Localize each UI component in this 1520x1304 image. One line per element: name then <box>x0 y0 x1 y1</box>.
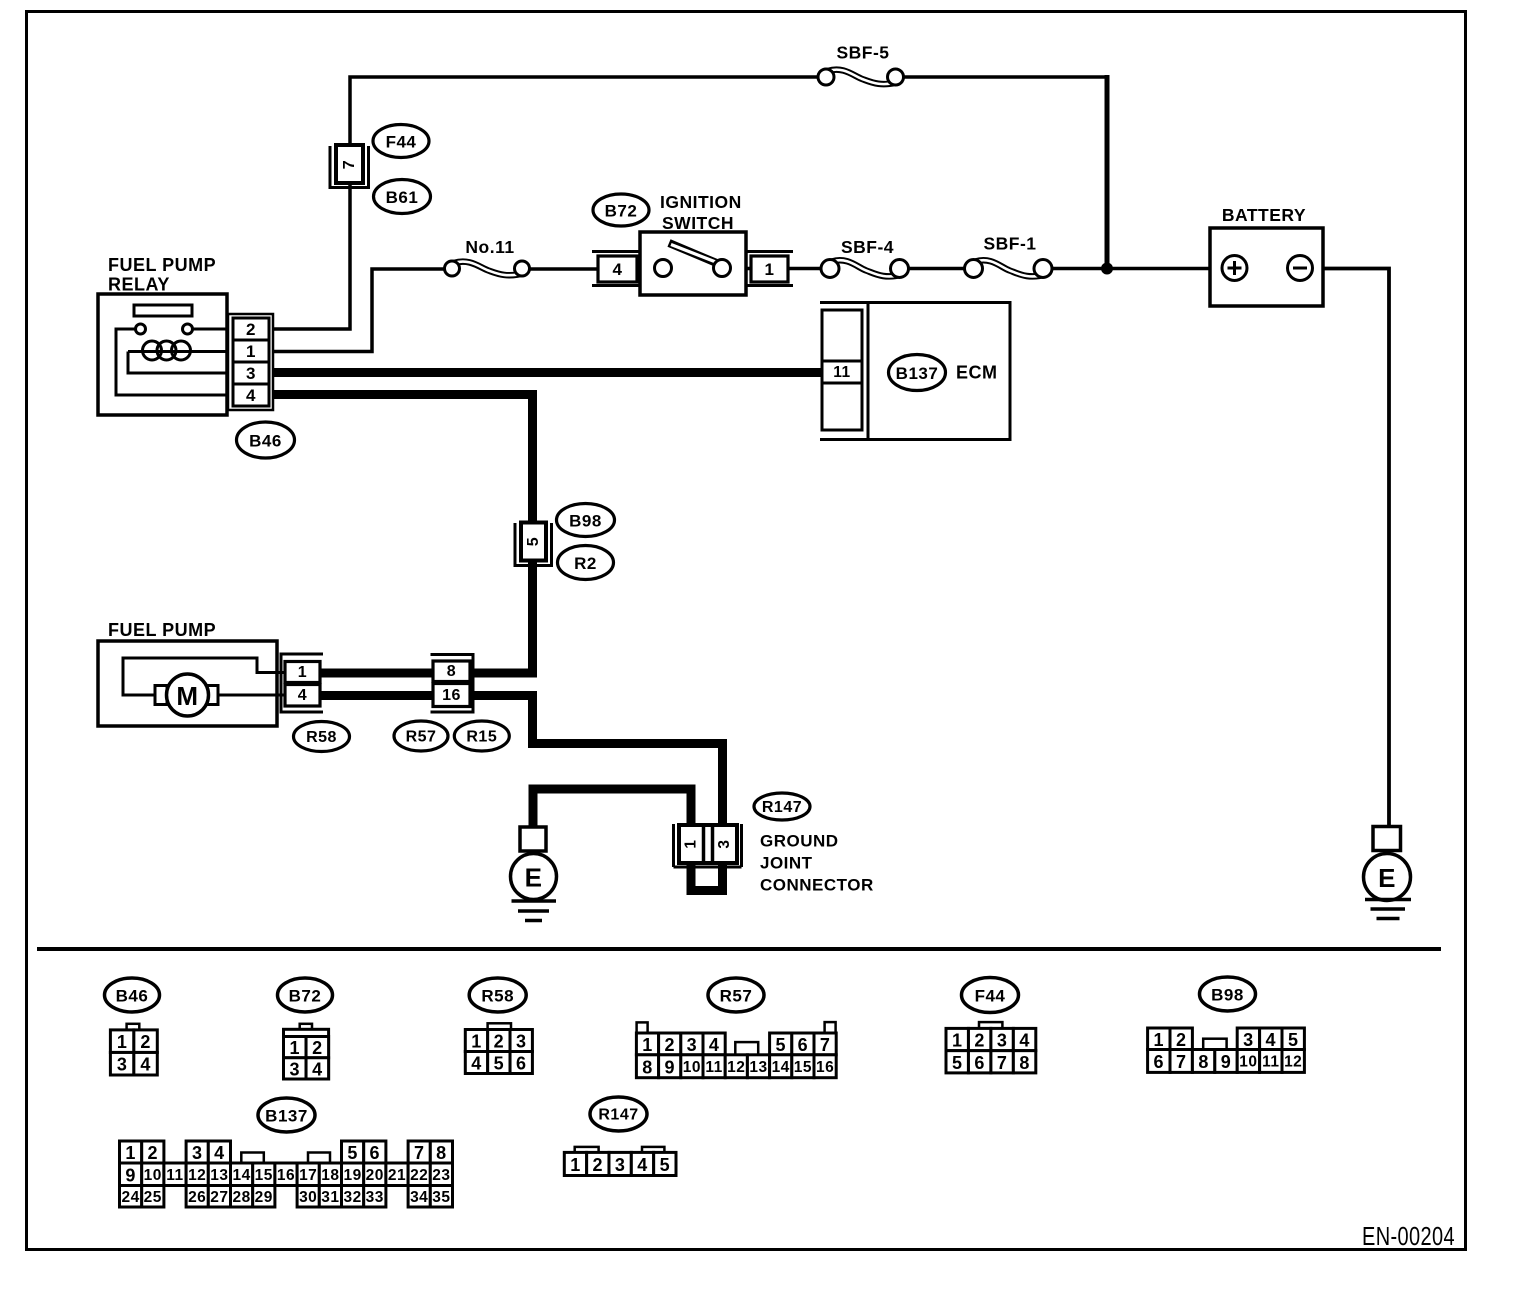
svg-text:8: 8 <box>1019 1053 1030 1073</box>
svg-text:10: 10 <box>683 1059 701 1076</box>
svg-text:19: 19 <box>343 1167 361 1184</box>
ignition pin 4 <box>598 256 637 282</box>
oval label R58 (pinout) <box>469 978 526 1012</box>
connector F44 pinout <box>979 1022 1002 1028</box>
svg-text:B72: B72 <box>605 202 638 221</box>
svg-text:M: M <box>176 681 198 711</box>
fuel pump box <box>98 641 277 726</box>
svg-text:12: 12 <box>727 1059 745 1076</box>
svg-text:11: 11 <box>705 1059 722 1076</box>
svg-text:1: 1 <box>1154 1030 1165 1050</box>
svg-text:4: 4 <box>471 1054 482 1074</box>
thick wire: R147 pin1 left to ground <box>533 789 691 832</box>
svg-text:3: 3 <box>1243 1030 1254 1050</box>
oval label B72 <box>593 194 649 226</box>
battery box <box>1210 228 1323 306</box>
connector F44/B61 pin 7 <box>336 145 363 183</box>
svg-text:23: 23 <box>432 1167 450 1184</box>
svg-text:B46: B46 <box>116 987 149 1006</box>
svg-text:1: 1 <box>290 1038 301 1058</box>
svg-text:3: 3 <box>290 1059 301 1079</box>
fuse SBF-4 <box>839 266 891 272</box>
connector R147 pins 1 and 3 <box>679 825 737 863</box>
wire: relay pin2 to connector F44/B61 up to SBF-5 line, down to junction <box>271 77 1107 329</box>
oval label F44 (pinout) <box>962 978 1019 1013</box>
thick wire: fuel pump pin1 to R57 pin8 <box>318 669 435 678</box>
svg-text:16: 16 <box>442 687 461 704</box>
svg-text:5: 5 <box>1288 1030 1299 1050</box>
fuse SBF-5 <box>834 74 888 80</box>
relay internal wires <box>192 328 250 331</box>
oval label R147 (pinout) <box>590 1097 647 1131</box>
svg-text:5: 5 <box>347 1143 358 1163</box>
svg-text:4: 4 <box>140 1055 151 1075</box>
svg-text:FUEL PUMP: FUEL PUMP <box>108 620 216 640</box>
svg-text:R58: R58 <box>481 987 514 1006</box>
svg-text:R15: R15 <box>466 729 497 746</box>
svg-text:B61: B61 <box>386 188 419 207</box>
svg-text:3: 3 <box>687 1035 698 1055</box>
oval label R57 <box>394 721 448 751</box>
svg-text:1: 1 <box>125 1143 136 1163</box>
connector B98 pinout <box>1203 1039 1226 1050</box>
svg-text:6: 6 <box>798 1035 809 1055</box>
svg-text:27: 27 <box>210 1189 228 1206</box>
svg-text:1: 1 <box>298 664 307 681</box>
svg-text:SBF-4: SBF-4 <box>841 237 894 257</box>
svg-text:10: 10 <box>1239 1053 1257 1070</box>
thick wire: relay pin3 to ECM pin 11 <box>271 368 826 377</box>
svg-text:R2: R2 <box>574 554 597 573</box>
svg-text:20: 20 <box>366 1167 384 1184</box>
ignition pin 1 bracket <box>746 250 793 253</box>
svg-text:4: 4 <box>312 1059 323 1079</box>
svg-text:6: 6 <box>974 1053 985 1073</box>
R57 pin 8 <box>433 661 470 682</box>
connector R147 bracket <box>674 824 742 867</box>
svg-text:3: 3 <box>997 1031 1008 1051</box>
ignition switch box <box>640 232 746 295</box>
svg-text:5: 5 <box>525 537 542 546</box>
motor M <box>167 674 209 716</box>
svg-text:15: 15 <box>255 1167 273 1184</box>
R58 pin 4 <box>285 685 320 707</box>
svg-text:13: 13 <box>749 1059 767 1076</box>
svg-text:33: 33 <box>366 1189 384 1206</box>
relay connector B46 pins 2 1 3 4 <box>228 314 273 410</box>
svg-text:4: 4 <box>246 386 256 405</box>
svg-text:2: 2 <box>246 320 256 339</box>
fuel pump relay box <box>98 294 227 415</box>
thick wire: R57 pin16 down and right to R147 pin 3 <box>468 696 723 831</box>
svg-text:6: 6 <box>370 1143 381 1163</box>
svg-text:16: 16 <box>816 1059 834 1076</box>
svg-text:32: 32 <box>343 1189 361 1206</box>
svg-text:4: 4 <box>613 260 623 279</box>
svg-text:12: 12 <box>1284 1053 1302 1070</box>
ECM outline <box>820 303 1010 440</box>
connector R58 bracket <box>281 654 323 712</box>
svg-text:30: 30 <box>299 1189 317 1206</box>
svg-text:B137: B137 <box>896 364 939 383</box>
svg-text:8: 8 <box>1198 1052 1209 1072</box>
svg-text:E: E <box>1378 863 1396 893</box>
svg-text:No.11: No.11 <box>465 237 514 257</box>
svg-text:1: 1 <box>246 342 256 361</box>
oval label R147 <box>754 793 810 820</box>
wire: ignition switch to SBF-4, SBF-1, junction, battery + <box>718 267 1212 271</box>
connector B72 pinout <box>300 1024 312 1030</box>
svg-text:3: 3 <box>516 1032 527 1052</box>
svg-text:7: 7 <box>997 1053 1008 1073</box>
svg-text:5: 5 <box>775 1035 786 1055</box>
ECM pin column with pin 11 <box>822 310 862 430</box>
fuse SBF-1 <box>983 266 1035 272</box>
oval label B46 <box>237 422 295 458</box>
svg-text:9: 9 <box>1221 1052 1232 1072</box>
svg-text:4: 4 <box>1019 1031 1030 1051</box>
battery - terminal <box>1288 256 1313 281</box>
svg-text:4: 4 <box>1266 1030 1277 1050</box>
svg-text:SBF-1: SBF-1 <box>983 234 1036 254</box>
svg-text:6: 6 <box>516 1054 527 1074</box>
svg-text:F44: F44 <box>386 133 417 152</box>
relay contact left <box>136 324 146 334</box>
svg-text:FUEL PUMP: FUEL PUMP <box>108 255 216 275</box>
svg-text:3: 3 <box>615 1155 626 1175</box>
relay coil <box>143 341 162 360</box>
svg-text:28: 28 <box>232 1189 250 1206</box>
svg-text:ECM: ECM <box>956 363 998 383</box>
svg-text:34: 34 <box>410 1189 428 1206</box>
svg-text:8: 8 <box>436 1143 447 1163</box>
svg-text:BATTERY: BATTERY <box>1222 205 1306 225</box>
svg-text:9: 9 <box>664 1057 675 1077</box>
svg-text:B72: B72 <box>289 987 322 1006</box>
relay contact right <box>183 324 193 334</box>
switch contact right <box>714 260 731 277</box>
svg-text:1: 1 <box>683 839 700 848</box>
oval label B98 (pinout) <box>1200 977 1256 1011</box>
thick wire: fuel pump pin4 to pin16 <box>318 691 435 700</box>
svg-text:R57: R57 <box>720 987 753 1006</box>
oval label R15 <box>454 721 509 751</box>
svg-text:11: 11 <box>166 1167 183 1184</box>
svg-text:5: 5 <box>494 1054 505 1074</box>
R57 pin 16 <box>433 684 470 707</box>
svg-text:4: 4 <box>709 1035 720 1055</box>
svg-text:3: 3 <box>716 839 733 848</box>
svg-text:17: 17 <box>299 1167 317 1184</box>
svg-text:31: 31 <box>321 1189 339 1206</box>
svg-text:5: 5 <box>952 1053 963 1073</box>
oval label R2 <box>558 546 614 580</box>
svg-text:2: 2 <box>494 1032 505 1052</box>
svg-text:R57: R57 <box>406 729 437 746</box>
thick wire: R147 joint U loop <box>691 860 723 891</box>
svg-text:10: 10 <box>144 1167 162 1184</box>
ground right connector box <box>1373 827 1401 851</box>
svg-text:F44: F44 <box>975 987 1006 1006</box>
fuse No.11 <box>460 266 515 272</box>
oval label F44 <box>373 125 429 158</box>
svg-text:6: 6 <box>1154 1052 1165 1072</box>
svg-text:RELAY: RELAY <box>108 275 170 295</box>
ignition pin 1 <box>751 256 788 282</box>
svg-text:R58: R58 <box>306 729 337 746</box>
oval label R58 <box>294 722 350 752</box>
svg-text:35: 35 <box>432 1189 450 1206</box>
svg-text:GROUND: GROUND <box>760 832 839 851</box>
svg-text:SBF-5: SBF-5 <box>836 43 889 63</box>
connector R57 pinout <box>637 1022 648 1033</box>
svg-text:1: 1 <box>642 1035 653 1055</box>
oval label B46 (pinout) <box>105 978 160 1012</box>
svg-text:B137: B137 <box>265 1107 308 1126</box>
svg-text:2: 2 <box>1176 1030 1187 1050</box>
wire: SBF-5 feed down to junction <box>1105 75 1110 269</box>
svg-text:3: 3 <box>117 1055 128 1075</box>
svg-text:9: 9 <box>125 1165 136 1185</box>
switch contact left <box>655 260 672 277</box>
connector B98/R2 pin 5 <box>521 523 546 561</box>
svg-text:15: 15 <box>794 1059 812 1076</box>
oval label B137 (pinout) <box>258 1098 315 1132</box>
svg-text:JOINT: JOINT <box>760 854 813 873</box>
svg-text:B46: B46 <box>249 432 282 451</box>
svg-text:EN-00204: EN-00204 <box>1362 1221 1455 1251</box>
svg-text:B98: B98 <box>569 512 602 531</box>
wire: relay pin1 up to No.11 fuse and main feed line to ignition switch <box>271 269 667 352</box>
oval label B98 <box>557 504 615 537</box>
ground left bars <box>512 899 557 903</box>
svg-text:8: 8 <box>642 1057 653 1077</box>
svg-text:13: 13 <box>210 1167 228 1184</box>
svg-text:14: 14 <box>232 1167 250 1184</box>
svg-text:7: 7 <box>414 1143 425 1163</box>
battery + terminal <box>1222 256 1247 281</box>
wire: battery - terminal to right ground <box>1321 269 1389 830</box>
thick wire: relay pin4 down through connector B98/R2 to R57 pin 8 <box>271 395 533 674</box>
switch lever <box>669 243 719 264</box>
svg-text:18: 18 <box>321 1167 339 1184</box>
svg-text:2: 2 <box>974 1031 985 1051</box>
ignition pin 4 bracket <box>592 250 640 253</box>
svg-text:1: 1 <box>765 260 775 279</box>
svg-text:22: 22 <box>410 1167 428 1184</box>
junction node <box>1102 263 1113 274</box>
svg-text:4: 4 <box>637 1155 648 1175</box>
svg-text:21: 21 <box>388 1167 406 1184</box>
connector B46 pinout <box>127 1024 140 1030</box>
connector R58 pinout <box>488 1023 511 1030</box>
svg-text:1: 1 <box>471 1032 482 1052</box>
svg-text:26: 26 <box>188 1189 206 1206</box>
svg-text:E: E <box>525 863 543 893</box>
svg-text:3: 3 <box>192 1143 203 1163</box>
svg-text:1: 1 <box>952 1031 963 1051</box>
svg-text:IGNITION: IGNITION <box>660 192 742 212</box>
oval label B72 (pinout) <box>278 978 333 1012</box>
svg-text:4: 4 <box>214 1143 225 1163</box>
motor terminal blocks <box>155 686 167 705</box>
svg-text:B98: B98 <box>1211 986 1244 1005</box>
svg-text:7: 7 <box>820 1035 831 1055</box>
R58 pin 1 <box>285 662 320 683</box>
svg-text:2: 2 <box>140 1032 151 1052</box>
svg-text:SWITCH: SWITCH <box>662 213 734 233</box>
ground right E circle <box>1364 854 1411 901</box>
svg-text:24: 24 <box>121 1189 139 1206</box>
divider line <box>37 947 1441 951</box>
oval label B61 <box>374 180 431 214</box>
oval label R57 (pinout) <box>708 978 764 1012</box>
svg-text:14: 14 <box>772 1059 790 1076</box>
svg-text:1: 1 <box>117 1032 128 1052</box>
svg-text:16: 16 <box>277 1167 295 1184</box>
svg-text:2: 2 <box>593 1155 604 1175</box>
svg-text:25: 25 <box>144 1189 162 1206</box>
svg-text:8: 8 <box>447 663 456 680</box>
connector F44/B61 bracket <box>330 146 369 188</box>
svg-text:4: 4 <box>298 687 307 704</box>
svg-text:2: 2 <box>664 1035 675 1055</box>
svg-text:11: 11 <box>1262 1053 1279 1070</box>
connector B98/R2 bracket <box>515 523 552 566</box>
svg-text:2: 2 <box>148 1143 159 1163</box>
ground left connector box <box>520 827 546 851</box>
svg-text:12: 12 <box>188 1167 206 1184</box>
connector R147 pinout <box>575 1147 599 1153</box>
ground right bars <box>1365 898 1411 902</box>
svg-text:2: 2 <box>312 1038 323 1058</box>
oval label B137 <box>889 355 946 391</box>
relay armature bar <box>134 305 192 316</box>
svg-text:R147: R147 <box>598 1107 638 1124</box>
svg-text:1: 1 <box>570 1155 581 1175</box>
svg-text:7: 7 <box>341 160 358 169</box>
ground left E circle <box>511 854 557 900</box>
fuel pump internal wires <box>123 658 290 695</box>
connector R57/R15 bracket <box>431 655 474 713</box>
svg-text:CONNECTOR: CONNECTOR <box>760 876 874 895</box>
svg-text:R147: R147 <box>762 799 802 816</box>
svg-text:29: 29 <box>255 1189 273 1206</box>
connector B137 pinout <box>241 1153 263 1164</box>
svg-text:3: 3 <box>246 364 256 383</box>
svg-text:5: 5 <box>660 1155 671 1175</box>
svg-text:11: 11 <box>833 364 850 381</box>
svg-text:7: 7 <box>1176 1052 1187 1072</box>
